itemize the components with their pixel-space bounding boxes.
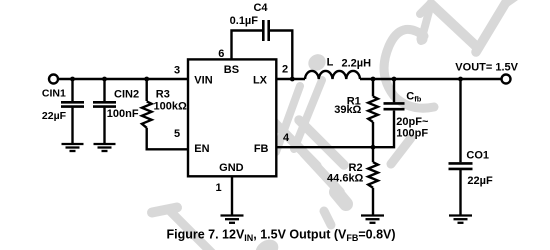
wire Cfb bottom to FB wire <box>373 111 394 148</box>
svg-text:FB: FB <box>254 143 269 155</box>
svg-text:Figure 7. 12VIN, 1.5V Output (: Figure 7. 12VIN, 1.5V Output (VFB=0.8V) <box>166 228 395 244</box>
node FB junction <box>371 145 376 150</box>
svg-text:CO1: CO1 <box>466 149 489 161</box>
watermark small stroke <box>324 211 331 225</box>
watermark C tail <box>391 138 411 164</box>
svg-text:BS: BS <box>224 64 239 76</box>
wire R2 bottom <box>372 188 374 216</box>
watermark foot <box>336 192 346 204</box>
ground CIN2 <box>94 144 116 151</box>
wire CIN1 branch top <box>71 79 73 101</box>
svg-text:100pF: 100pF <box>396 128 428 140</box>
svg-text:2.2µH: 2.2µH <box>342 58 372 70</box>
node R3 <box>144 77 149 82</box>
svg-text:22µF: 22µF <box>42 110 67 122</box>
svg-text:R3: R3 <box>156 89 170 101</box>
svg-text:39kΩ: 39kΩ <box>334 104 361 116</box>
svg-text:3: 3 <box>174 65 180 77</box>
watermark J bar <box>152 208 177 213</box>
svg-text:4: 4 <box>283 132 290 144</box>
watermark i dot <box>305 51 329 74</box>
svg-text:LX: LX <box>253 74 268 86</box>
svg-text:2: 2 <box>282 63 288 75</box>
terminal input <box>49 75 58 84</box>
watermark N right stem <box>476 0 511 52</box>
wire R1 bottom <box>372 122 374 147</box>
capacitor CO1 <box>449 163 473 169</box>
svg-text:VIN: VIN <box>194 74 212 86</box>
watermark N diagonal <box>431 4 478 48</box>
wire LX to inductor <box>276 78 305 80</box>
node Cfb top <box>392 77 397 82</box>
wire inductor to VOUT <box>360 78 502 80</box>
svg-text:CIN2: CIN2 <box>114 89 139 101</box>
node CO1 top <box>458 77 463 82</box>
watermark C knob <box>417 34 428 45</box>
wire input rail <box>58 78 188 80</box>
svg-text:VOUT= 1.5V: VOUT= 1.5V <box>455 62 518 74</box>
watermark <box>152 0 518 250</box>
wire CO1 top <box>459 79 461 162</box>
wire BS to C4 left <box>232 31 263 60</box>
node CIN2 <box>102 77 107 82</box>
svg-text:1: 1 <box>216 182 222 194</box>
svg-text:0.1µF: 0.1µF <box>230 15 259 27</box>
node CIN1 <box>70 77 75 82</box>
node BS/LX <box>290 77 295 82</box>
svg-text:44.6kΩ: 44.6kΩ <box>327 173 364 185</box>
wire GND pin <box>231 176 233 215</box>
ground R2 <box>361 216 384 223</box>
wire CIN2 branch top <box>103 79 105 101</box>
svg-text:CIN1: CIN1 <box>42 87 66 99</box>
watermark N left serif <box>420 3 431 14</box>
watermark diagonal 3 <box>304 153 340 192</box>
capacitor CIN1 <box>61 102 84 106</box>
resistor R1 <box>368 96 378 122</box>
watermark M right stem <box>276 86 300 152</box>
ground CO1 <box>449 216 472 223</box>
capacitor CIN2 <box>93 102 116 106</box>
svg-text:100kΩ: 100kΩ <box>154 101 187 113</box>
wire R3 top <box>145 79 147 101</box>
watermark N left stem <box>421 4 431 41</box>
wire FB <box>276 146 373 148</box>
svg-text:22µF: 22µF <box>467 175 493 187</box>
wire CO1 bottom <box>459 170 461 216</box>
svg-text:6: 6 <box>218 48 224 60</box>
watermark J stem <box>169 210 212 250</box>
wire R1 top <box>372 79 374 96</box>
watermark diagonal 1 <box>266 114 317 166</box>
wire R3 bottom to EN <box>147 128 188 150</box>
inductor L <box>305 71 360 79</box>
wire CIN1 branch bottom <box>71 108 73 144</box>
wire C4 right to LX rail <box>270 31 292 80</box>
terminal VOUT <box>502 75 511 84</box>
wire Cfb top <box>393 79 395 102</box>
svg-text:5: 5 <box>174 128 180 140</box>
svg-text:L: L <box>327 57 334 69</box>
node R1 top <box>371 77 376 82</box>
resistor R3 <box>142 101 152 127</box>
svg-text:20pF~: 20pF~ <box>396 116 429 128</box>
watermark C arc <box>384 29 434 108</box>
capacitor Cfb <box>384 103 405 109</box>
watermark period <box>252 236 282 250</box>
watermark i stem <box>294 80 322 149</box>
wire R2 top <box>372 147 374 162</box>
svg-text:EN: EN <box>194 143 209 155</box>
svg-text:C4: C4 <box>253 2 268 14</box>
watermark diagonal 2 <box>299 120 344 165</box>
resistor R2 <box>368 162 378 188</box>
svg-text:100nF: 100nF <box>107 108 139 120</box>
watermark corner stroke <box>504 0 518 7</box>
ground GND pin <box>221 216 244 223</box>
capacitor C4 <box>263 20 268 41</box>
op-amp U1 : converter IC body <box>188 59 276 176</box>
wire CIN2 branch bottom <box>103 108 105 144</box>
svg-text:GND: GND <box>219 162 244 174</box>
ground CIN1 <box>62 144 84 151</box>
